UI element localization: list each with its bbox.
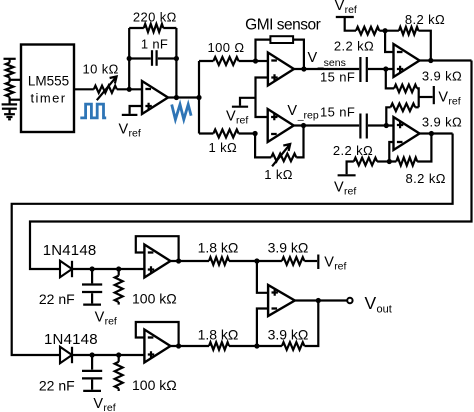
- op-amp U2: [268, 53, 294, 86]
- svg-text:timer: timer: [31, 91, 67, 106]
- V_ref terminal top bar: [336, 16, 354, 18]
- potentiometer 10 kOhm: [94, 86, 117, 93]
- wire cap to U4 +: [368, 68, 394, 70]
- ground bar 1: [4, 113, 15, 115]
- V_ref terminal bar: [122, 114, 138, 116]
- capacitor 15 nF bottom plates: [359, 114, 361, 139]
- potentiometer 1 kOhm: [271, 154, 296, 162]
- svg-text:V: V: [334, 180, 344, 196]
- square wave symbol: [80, 104, 106, 118]
- wire V_ref tap: [240, 98, 256, 106]
- svg-text:V: V: [95, 310, 105, 326]
- wire U6 output: [171, 260, 209, 262]
- node U3 minus junction: [253, 131, 258, 136]
- svg-text:100 kΩ: 100 kΩ: [132, 291, 177, 307]
- resistor R-divider-1: [6, 63, 14, 78]
- LM555 timer box: [21, 45, 74, 133]
- wire: [9, 77, 11, 82]
- wire U1 + input to V_ref: [130, 106, 142, 114]
- resistor 220 kOhm: [129, 24, 176, 32]
- wire + input common vertical: [256, 78, 268, 118]
- wire U7 feedback loop: [136, 322, 179, 346]
- node 3.9k tap bottom: [384, 123, 389, 128]
- capacitor 1 nF plates: [151, 50, 153, 66]
- svg-text:V: V: [365, 293, 377, 313]
- wire U8 output: [295, 299, 347, 301]
- svg-text:ref: ref: [236, 115, 248, 127]
- node U7 output: [176, 343, 181, 348]
- wire node to U8 +: [257, 261, 268, 293]
- svg-text:V: V: [335, 0, 345, 14]
- svg-text:ref: ref: [448, 96, 460, 108]
- svg-text:_rep: _rep: [297, 110, 319, 122]
- op-amp U5: [394, 117, 420, 150]
- svg-text:ref: ref: [103, 402, 115, 412]
- wire tap to pin: [10, 99, 21, 101]
- resistor 100 Ohm: [199, 57, 256, 65]
- svg-text:V: V: [287, 103, 297, 119]
- resistor 3.9 kOhm U8 feedback: [257, 345, 282, 347]
- op-amp U8 output stage: [268, 285, 295, 316]
- node U5 output: [429, 131, 434, 136]
- capacitor 1 nF wires: [129, 57, 151, 59]
- op-amp U7 follower: [144, 330, 170, 363]
- wire 8.2k to output: [418, 31, 430, 61]
- svg-text:1 nF: 1 nF: [141, 37, 168, 52]
- resistor 8.2 kOhm top: [385, 27, 418, 35]
- node sum bottom: [254, 343, 259, 348]
- svg-text:22 nF: 22 nF: [39, 291, 75, 307]
- resistor 3.9 kOhm pair-top: [386, 69, 394, 88]
- wire U5 output: [420, 132, 453, 134]
- svg-text:ref: ref: [334, 261, 346, 273]
- node U6 output: [176, 258, 181, 263]
- diode D2 1N4148: [60, 347, 72, 363]
- resistor 3.9 kOhm to V_ref: [257, 260, 282, 262]
- V_ref terminal bottom bar: [338, 174, 356, 176]
- battery plate long: [2, 103, 18, 105]
- svg-text:15 nF: 15 nF: [320, 70, 355, 85]
- capacitor 15 nF top plates: [359, 57, 361, 82]
- wire: [9, 59, 11, 63]
- node U5 feedback: [387, 159, 392, 164]
- node D1 100k junction: [116, 266, 121, 271]
- capacitor 22 nF top: [91, 269, 93, 283]
- GMI sensor element leads: [256, 40, 271, 61]
- wire branch vertical: [198, 61, 200, 134]
- node U2 output junction: [301, 66, 306, 71]
- resistor 1.8 kOhm top: [209, 257, 229, 265]
- wire cap to U5 +: [368, 124, 394, 126]
- svg-text:2.2 kΩ: 2.2 kΩ: [333, 143, 373, 158]
- node D1 cap junction: [90, 266, 95, 271]
- node 3.9k tap top: [383, 66, 388, 71]
- svg-text:22 nF: 22 nF: [39, 377, 75, 393]
- svg-text:220 kΩ: 220 kΩ: [133, 9, 177, 24]
- wire V_ref tap right: [419, 96, 433, 98]
- wire U4 output: [420, 59, 472, 61]
- svg-text:1 kΩ: 1 kΩ: [208, 140, 237, 155]
- wire pot to node: [117, 88, 142, 90]
- resistor 2.2 kOhm bottom: [354, 158, 377, 166]
- resistor 100 kOhm top: [118, 269, 120, 276]
- wire U5 minus to feedback: [389, 142, 393, 162]
- wire U6 feedback loop: [136, 236, 179, 261]
- svg-text:2.2 kΩ: 2.2 kΩ: [334, 39, 374, 54]
- capacitor 22 nF bottom: [91, 355, 93, 370]
- wire U3 feedback down: [255, 134, 271, 158]
- V_ref terminal bar: [232, 106, 248, 108]
- svg-text:8.2 kΩ: 8.2 kΩ: [405, 12, 445, 27]
- svg-text:ref: ref: [344, 186, 356, 198]
- svg-text:_sens: _sens: [317, 57, 346, 69]
- wire to node: [379, 30, 385, 32]
- wire U1 output: [168, 96, 199, 98]
- svg-text:GMI sensor: GMI sensor: [245, 17, 320, 34]
- svg-text:100 kΩ: 100 kΩ: [132, 377, 177, 393]
- ground bar 3: [8, 118, 11, 120]
- GMI sensor element box: [270, 36, 293, 43]
- svg-text:3.9 kΩ: 3.9 kΩ: [422, 69, 462, 84]
- resistor 1.8 kOhm bottom: [209, 342, 229, 350]
- node D2 cap junction: [90, 352, 95, 357]
- resistor 100 kOhm bottom: [118, 355, 120, 362]
- svg-text:V: V: [308, 50, 318, 66]
- svg-text:10 kΩ: 10 kΩ: [82, 61, 118, 76]
- battery plate 2: [2, 108, 17, 110]
- op-amp U1: [142, 81, 168, 114]
- svg-text:1N4148: 1N4148: [44, 331, 98, 348]
- op-amp U4: [394, 44, 420, 77]
- svg-text:V: V: [438, 90, 448, 106]
- node D2 100k junction: [116, 352, 121, 357]
- resistor 1 kOhm fixed: [199, 130, 255, 138]
- svg-text:V: V: [93, 396, 103, 412]
- V_ref terminal bar at U8 +: [317, 255, 319, 270]
- node U3 output junction: [301, 123, 306, 128]
- svg-text:ref: ref: [129, 128, 141, 140]
- wire U7 output: [171, 345, 209, 347]
- svg-text:V: V: [226, 109, 236, 125]
- wire V_sens row: [294, 68, 359, 70]
- battery supply column top bar: [4, 58, 16, 60]
- wire feedback left vertical: [128, 28, 130, 89]
- wire 3.9k pair vertical: [417, 88, 419, 107]
- resistor 8.2 kOhm bottom: [389, 158, 417, 166]
- wire: [9, 109, 11, 115]
- svg-text:3.9 kΩ: 3.9 kΩ: [268, 326, 309, 342]
- svg-text:1N4148: 1N4148: [43, 242, 97, 259]
- svg-text:ref: ref: [105, 316, 117, 328]
- wire U8 minus down: [257, 309, 268, 347]
- svg-text:8.2 kΩ: 8.2 kΩ: [406, 171, 446, 186]
- node U4 output: [428, 58, 433, 63]
- wire U5 output to diode row 2: [12, 134, 453, 356]
- node U1 inverting input: [127, 87, 132, 92]
- node branch junction: [196, 95, 201, 100]
- wire to U4 minus: [385, 31, 393, 52]
- ground bar 2: [6, 116, 12, 118]
- resistor R-divider-2: [6, 82, 14, 97]
- svg-text:3.9 kΩ: 3.9 kΩ: [268, 239, 309, 255]
- resistor 2.2 kOhm top: [356, 27, 379, 35]
- op-amp U6 follower: [144, 245, 170, 278]
- wire U4 output to diode row 1: [30, 61, 472, 270]
- svg-text:1 kΩ: 1 kΩ: [264, 167, 293, 182]
- node: [174, 56, 179, 61]
- wire: [9, 97, 11, 104]
- wire to U2 minus: [256, 60, 268, 62]
- resistor 3.9 kOhm pair-bottom: [391, 104, 416, 112]
- svg-text:100 Ω: 100 Ω: [207, 40, 244, 55]
- wire V_ref to 2.2k bottom: [347, 162, 354, 175]
- node U1 output: [174, 95, 179, 100]
- svg-text:1.8 kΩ: 1.8 kΩ: [198, 239, 239, 255]
- wire feedback right vertical: [175, 28, 177, 98]
- V_ref terminal bar cap2: [83, 390, 101, 392]
- V_ref terminal bar right: [433, 86, 435, 104]
- svg-text:out: out: [377, 304, 392, 316]
- node GMI feedback junction: [253, 58, 258, 63]
- svg-text:15 nF: 15 nF: [320, 105, 355, 120]
- svg-text:V: V: [324, 255, 334, 271]
- wire V_rep row: [294, 124, 359, 126]
- svg-text:LM555: LM555: [28, 73, 69, 88]
- wire LM555 output: [74, 88, 94, 90]
- output terminal circle: [347, 298, 352, 303]
- svg-text:3.9 kΩ: 3.9 kΩ: [422, 115, 462, 130]
- node: [127, 56, 132, 61]
- node sum top: [254, 258, 259, 263]
- V_ref terminal bar cap1: [83, 304, 101, 306]
- node U8 output: [316, 298, 321, 303]
- wire U3 feedback up: [296, 126, 303, 158]
- svg-text:ref: ref: [345, 4, 357, 16]
- wire tap to pin: [10, 79, 21, 81]
- triangle wave symbol: [172, 105, 191, 120]
- diode D1 1N4148: [60, 261, 72, 277]
- node U4 minus feedback: [383, 28, 388, 33]
- op-amp U3: [268, 109, 294, 142]
- svg-text:V: V: [119, 122, 129, 138]
- svg-text:1.8 kΩ: 1.8 kΩ: [198, 326, 239, 342]
- wire V_ref to 2.2k: [345, 17, 356, 31]
